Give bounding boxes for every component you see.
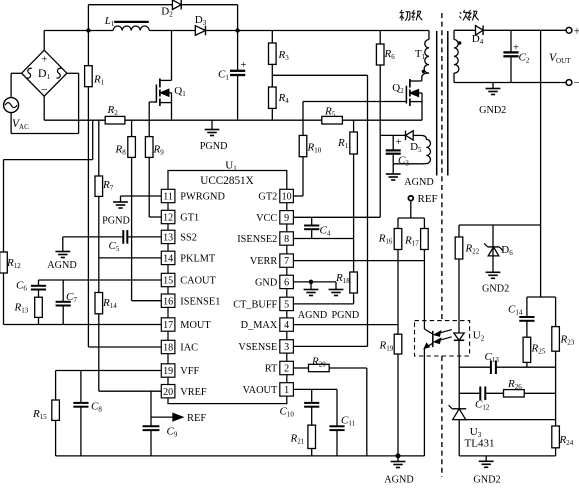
svg-text:SS2: SS2: [180, 233, 197, 244]
svg-text:VSENSE: VSENSE: [238, 342, 277, 353]
svg-text:ISENSE1: ISENSE1: [180, 296, 220, 307]
svg-text:ISENSE2: ISENSE2: [237, 234, 277, 245]
svg-text:16: 16: [163, 296, 173, 307]
svg-text:VAOUT: VAOUT: [243, 385, 278, 396]
svg-text:10: 10: [282, 192, 292, 203]
svg-text:VREF: VREF: [180, 387, 207, 398]
svg-text:11: 11: [163, 192, 173, 203]
svg-text:GND2: GND2: [479, 105, 506, 116]
svg-text:REF: REF: [187, 413, 206, 424]
svg-text:TL431: TL431: [465, 438, 495, 450]
svg-text:PGND: PGND: [102, 216, 130, 227]
svg-text:4: 4: [284, 320, 289, 331]
svg-text:+: +: [513, 42, 519, 54]
svg-text:UCC2851X: UCC2851X: [200, 175, 253, 187]
svg-text:18: 18: [163, 343, 173, 354]
svg-text:+: +: [574, 25, 579, 37]
svg-text:12: 12: [163, 213, 173, 224]
svg-text:1: 1: [284, 385, 289, 396]
svg-text:REF: REF: [418, 193, 438, 205]
svg-text:VERR: VERR: [250, 256, 278, 267]
svg-text:19: 19: [163, 366, 173, 377]
svg-text:GT1: GT1: [180, 213, 199, 224]
svg-text:GT2: GT2: [258, 192, 277, 203]
svg-text:17: 17: [163, 320, 173, 331]
svg-text:GND2: GND2: [473, 474, 500, 485]
svg-text:2: 2: [284, 364, 289, 375]
svg-text:AGND: AGND: [404, 177, 433, 188]
svg-text:CT_BUFF: CT_BUFF: [233, 300, 277, 311]
svg-text:+: +: [41, 54, 47, 66]
svg-text:MOUT: MOUT: [180, 320, 211, 331]
svg-text:IAC: IAC: [180, 343, 198, 354]
svg-text:PKLMT: PKLMT: [180, 254, 216, 265]
svg-text:20: 20: [163, 387, 173, 398]
svg-text:9: 9: [284, 213, 289, 224]
svg-text:3: 3: [284, 342, 289, 353]
svg-text:PGND: PGND: [332, 310, 360, 321]
svg-text:15: 15: [163, 276, 173, 287]
svg-text:VCC: VCC: [256, 213, 277, 224]
svg-text:8: 8: [284, 234, 289, 245]
svg-text:14: 14: [163, 254, 173, 265]
svg-text:AGND: AGND: [298, 310, 327, 321]
svg-text:D_MAX: D_MAX: [241, 320, 278, 331]
svg-text:AGND: AGND: [384, 474, 413, 485]
svg-text:7: 7: [284, 256, 289, 267]
svg-text:VFF: VFF: [180, 366, 199, 377]
svg-text:6: 6: [284, 278, 289, 289]
svg-text:PGND: PGND: [200, 141, 228, 152]
svg-text:CAOUT: CAOUT: [180, 276, 216, 287]
svg-text:−: −: [41, 83, 48, 97]
svg-text:GND: GND: [255, 278, 278, 289]
svg-text:5: 5: [284, 300, 289, 311]
svg-text:RT: RT: [265, 364, 278, 375]
svg-text:GND2: GND2: [482, 284, 509, 295]
svg-text:−: −: [574, 76, 579, 90]
svg-text:+: +: [395, 136, 401, 148]
svg-text:PWRGND: PWRGND: [180, 192, 225, 203]
svg-text:+: +: [240, 59, 246, 71]
svg-text:13: 13: [163, 233, 173, 244]
svg-text:AGND: AGND: [47, 260, 76, 271]
